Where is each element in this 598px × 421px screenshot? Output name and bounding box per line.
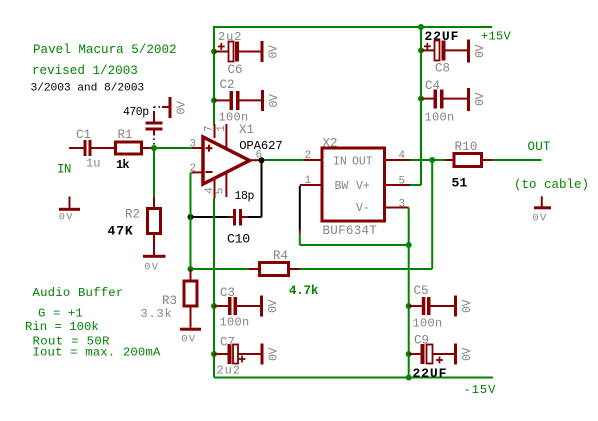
svg-text:47K: 47K — [108, 224, 134, 239]
svg-text:R4: R4 — [273, 249, 288, 263]
svg-text:1u: 1u — [86, 157, 100, 171]
wire X2 output to junction — [410, 159, 432, 161]
capacitor C6 2u2 polarized — [214, 30, 261, 77]
svg-text:V-: V- — [356, 202, 370, 215]
svg-text:X2: X2 — [323, 137, 338, 151]
svg-text:1: 1 — [305, 175, 312, 187]
svg-text:3: 3 — [399, 198, 406, 210]
wire output node to R10 — [432, 159, 445, 161]
buffer X2 BUF634T body — [322, 137, 385, 239]
svg-text:C5: C5 — [414, 284, 429, 298]
wire output down to C10 (black) — [259, 157, 265, 217]
capacitor C7 2u2 polarized — [214, 335, 261, 377]
svg-text:R1: R1 — [118, 128, 133, 142]
junction at C4 tap — [418, 96, 424, 102]
svg-text:V+: V+ — [356, 180, 370, 193]
pin 1 (trim) — [216, 124, 228, 149]
svg-text:Rin = 100k: Rin = 100k — [25, 320, 99, 334]
junction at C5 tap right — [406, 303, 412, 309]
svg-text:5: 5 — [399, 176, 406, 188]
resistor R2 47K — [108, 197, 161, 255]
capacitor C10 18p — [227, 190, 255, 247]
svg-text:3: 3 — [190, 139, 197, 151]
svg-text:100n: 100n — [413, 317, 443, 331]
svg-text:OUT: OUT — [352, 155, 373, 168]
svg-text:18p: 18p — [235, 190, 255, 203]
svg-text:0V: 0V — [461, 299, 474, 313]
ground 0V near OUT — [533, 196, 552, 224]
svg-text:R10: R10 — [455, 140, 478, 154]
note Rin — [25, 320, 99, 334]
ground 0V at R2 — [143, 255, 166, 274]
svg-text:2u2: 2u2 — [217, 363, 241, 377]
note Iout — [33, 345, 161, 359]
wire X2 V- down to -15V rail — [408, 208, 410, 378]
dotted wire 470p to node — [154, 107, 163, 148]
pin 6 (output) — [250, 150, 263, 162]
junction BW/V- node — [406, 242, 412, 248]
ground 0V at C5 — [454, 296, 474, 317]
svg-text:Iout = max. 200mA: Iout = max. 200mA — [33, 345, 161, 359]
junction at C8 tap — [418, 47, 424, 53]
value label 470p — [123, 106, 149, 119]
svg-text:0V: 0V — [59, 211, 74, 223]
svg-text:2u2: 2u2 — [218, 30, 242, 44]
X2 pin 4 (OUT) — [385, 150, 411, 162]
pin 5 (trim) — [215, 173, 227, 198]
ground 0V at C8 — [467, 40, 487, 63]
ground 0V at C9 — [454, 344, 474, 365]
power label +15V — [481, 30, 512, 44]
value label 22UF (C8) — [425, 29, 460, 44]
junction at C3 tap — [211, 303, 217, 309]
junction at C6 tap — [211, 49, 217, 55]
note title — [33, 43, 177, 57]
junction at C2 tap — [211, 97, 217, 103]
pin 7 (V+) — [204, 124, 216, 138]
X2 pin 1 (BW) — [300, 175, 322, 187]
svg-text:R2: R2 — [125, 208, 140, 222]
svg-text:(to cable): (to cable) — [514, 178, 589, 192]
svg-text:3/2003 and 8/2003: 3/2003 and 8/2003 — [31, 83, 145, 95]
svg-text:C8: C8 — [435, 62, 450, 76]
junction at -15V rail — [406, 375, 412, 381]
pin 4 (V-) — [204, 178, 216, 199]
note G=+1 — [38, 307, 83, 321]
ground 0V at R3 — [180, 328, 201, 346]
wire BW pin down (black segment) — [299, 186, 301, 230]
svg-text:3.3k: 3.3k — [141, 307, 173, 321]
svg-text:51: 51 — [452, 175, 468, 190]
svg-text:4.7k: 4.7k — [289, 284, 319, 298]
pin 3 (+ input) — [190, 139, 204, 151]
pin 2 (- input) — [190, 163, 204, 175]
note revised — [32, 64, 138, 78]
svg-text:1: 1 — [216, 125, 228, 132]
junction at R3/R4 node — [188, 266, 194, 272]
svg-text:0V: 0V — [461, 347, 474, 361]
svg-text:0V: 0V — [474, 44, 487, 58]
wire +15V top rail — [214, 26, 492, 28]
ground 0V at C2 — [261, 90, 281, 111]
svg-text:7: 7 — [204, 125, 216, 132]
label IN — [57, 163, 71, 177]
svg-text:C1: C1 — [76, 128, 91, 142]
power label -15V — [464, 383, 497, 397]
wire inverting input vertical — [190, 172, 192, 269]
svg-text:C3: C3 — [220, 286, 235, 300]
svg-text:-15V: -15V — [464, 383, 497, 397]
ground 0V at 470p — [162, 97, 189, 118]
svg-text:C4: C4 — [425, 79, 440, 93]
svg-text:IN: IN — [57, 163, 71, 177]
label (to cable) — [514, 178, 589, 192]
junction at C7 tap — [211, 351, 217, 357]
wire op-amp output to X2 input — [262, 159, 306, 161]
svg-text:+15V: +15V — [481, 30, 512, 44]
svg-text:0V: 0V — [181, 333, 196, 345]
svg-text:470p: 470p — [123, 106, 149, 119]
wire node A down to R2 — [153, 148, 155, 198]
svg-text:5: 5 — [215, 188, 227, 195]
svg-text:IN: IN — [333, 155, 347, 168]
svg-text:4: 4 — [399, 150, 406, 162]
wire R4 to output node — [300, 160, 433, 269]
note Rout — [33, 335, 111, 349]
capacitor C1 1u — [69, 128, 116, 171]
svg-text:0V: 0V — [268, 45, 281, 59]
X2 pin 5 (V+) — [385, 176, 411, 188]
wire +15V right vertical to X2 V+ — [410, 26, 421, 185]
svg-text:BUF634T: BUF634T — [323, 224, 378, 238]
svg-text:0V: 0V — [144, 261, 159, 273]
resistor R10 51 — [445, 140, 493, 190]
wire op-amp V- down to -15V rail — [213, 199, 215, 378]
svg-text:C2: C2 — [220, 78, 235, 92]
svg-text:22UF: 22UF — [413, 366, 448, 381]
ground 0V at C6 — [261, 41, 281, 62]
wire +15V left vertical to op-amp V+ pin — [213, 26, 215, 125]
junction at output node — [429, 157, 435, 163]
capacitor C5 100n — [409, 284, 454, 331]
svg-text:100n: 100n — [220, 316, 250, 330]
svg-text:G = +1: G = +1 — [38, 307, 83, 321]
svg-text:BW: BW — [335, 180, 349, 193]
svg-text:C9: C9 — [414, 333, 429, 347]
svg-text:C6: C6 — [228, 63, 243, 77]
wire -15V bottom rail — [214, 377, 493, 379]
ground 0V at C4 — [467, 88, 487, 111]
svg-text:0V: 0V — [176, 101, 189, 115]
svg-text:X1: X1 — [239, 123, 254, 137]
op-amp labels X1 OPA627 — [239, 123, 283, 153]
svg-text:revised 1/2003: revised 1/2003 — [32, 64, 138, 78]
junction at C9 tap right — [406, 351, 412, 357]
junction at R1 output node — [151, 145, 157, 151]
label OUT — [528, 140, 551, 154]
wire BW red segment — [299, 229, 301, 234]
wire R10 to OUT — [493, 159, 542, 161]
note 3/2003 — [31, 83, 145, 95]
resistor R4 4.7k — [191, 249, 319, 298]
capacitor C8 22UF polarized — [421, 41, 467, 76]
resistor R1 1k — [116, 128, 154, 172]
svg-text:Pavel Macura 5/2002: Pavel Macura 5/2002 — [33, 43, 177, 57]
svg-text:C10: C10 — [227, 232, 250, 247]
svg-text:100n: 100n — [425, 110, 455, 124]
capacitor 470p — [146, 112, 163, 135]
op-amp U1 OPA627 triangle — [203, 137, 250, 184]
capacitor C9 22UF polarized — [409, 333, 454, 381]
svg-text:Audio Buffer: Audio Buffer — [33, 286, 124, 300]
capacitor C3 100n — [214, 286, 260, 330]
note Audio Buffer — [33, 286, 124, 300]
svg-text:0V: 0V — [268, 94, 281, 108]
junction at top rail right tap — [418, 24, 424, 30]
svg-text:0V: 0V — [267, 299, 280, 313]
wire BW to V- node — [300, 233, 409, 245]
wire node A to op-amp + input — [154, 147, 192, 149]
X2 pin 2 (IN) — [304, 150, 322, 162]
svg-text:0V: 0V — [474, 92, 487, 106]
ground 0V at C7 — [261, 344, 281, 365]
capacitor C2 100n — [214, 78, 261, 125]
svg-text:R3: R3 — [162, 294, 177, 308]
svg-text:0V: 0V — [533, 213, 548, 225]
svg-text:1k: 1k — [116, 158, 129, 172]
ground 0V at C3 — [260, 296, 280, 317]
svg-text:0V: 0V — [268, 347, 281, 361]
svg-text:2: 2 — [305, 150, 312, 162]
capacitor C4 100n — [421, 79, 467, 125]
wire C10 to inverting node (black) — [188, 214, 262, 220]
ground 0V near IN — [59, 197, 80, 224]
X2 pin names — [333, 155, 373, 215]
resistor R3 3.3k — [141, 269, 198, 328]
svg-text:OUT: OUT — [528, 140, 551, 154]
svg-text:C7: C7 — [220, 335, 235, 349]
X2 pin 3 (V-) — [385, 198, 409, 210]
